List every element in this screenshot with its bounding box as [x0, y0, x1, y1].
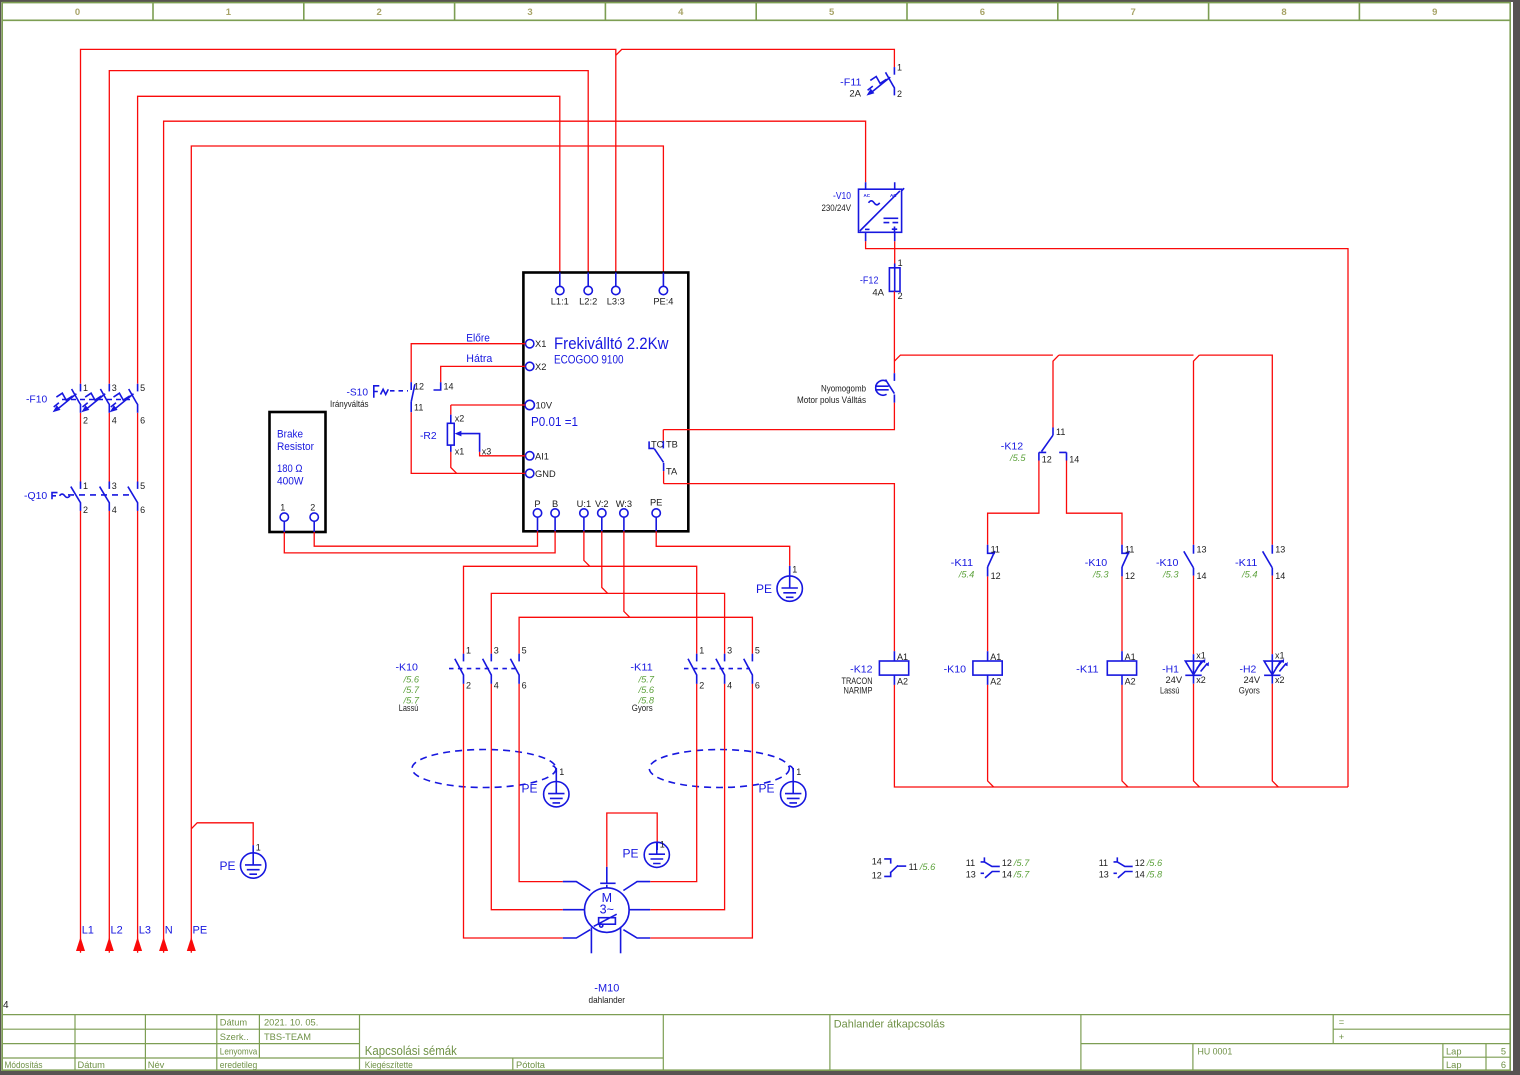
svg-text:2021. 10. 05.: 2021. 10. 05.	[264, 1018, 318, 1028]
svg-text:1: 1	[466, 645, 471, 655]
K10 pin numbers	[466, 645, 527, 690]
svg-text:-V10: -V10	[833, 190, 851, 202]
svg-text:-F11: -F11	[840, 77, 861, 89]
svg-text:11: 11	[1125, 544, 1134, 554]
svg-text:1: 1	[792, 565, 797, 575]
svg-text:L3: L3	[139, 925, 151, 937]
inverter pin U:1	[577, 499, 591, 531]
svg-text:/5.7: /5.7	[1013, 869, 1030, 879]
svg-text:PE: PE	[193, 925, 208, 937]
svg-text:6: 6	[980, 7, 985, 18]
svg-text:-K11: -K11	[630, 662, 653, 674]
svg-text:PE: PE	[623, 847, 639, 861]
svg-text:Lassú: Lassú	[1160, 686, 1180, 696]
svg-text:Kiegészítette: Kiegészítette	[365, 1060, 413, 1070]
svg-text:/5.4: /5.4	[958, 570, 975, 580]
svg-text:14: 14	[1069, 454, 1079, 464]
svg-text:12: 12	[414, 382, 424, 392]
svg-text:3: 3	[112, 481, 117, 491]
K11 mechanical link	[684, 668, 750, 670]
selector switch S10	[374, 382, 441, 412]
NC contact K10 pin numbers	[1125, 544, 1135, 581]
F10 mechanical link	[62, 399, 131, 401]
inverter pin W:3	[616, 499, 632, 531]
N source arrow	[159, 937, 168, 951]
svg-text:/5.6: /5.6	[403, 675, 420, 685]
svg-text:14: 14	[1135, 869, 1145, 879]
svg-text:x1: x1	[1196, 651, 1206, 661]
circuit breaker F10 pole 2	[81, 384, 109, 413]
svg-text:eredetileg: eredetileg	[220, 1060, 257, 1070]
svg-text:TBS-TEAM: TBS-TEAM	[264, 1032, 311, 1042]
svg-text:2: 2	[897, 89, 902, 99]
wire inverter V:2 to contactor row	[491, 531, 724, 653]
wire inverter PE to earth	[656, 531, 790, 566]
svg-text:11: 11	[1099, 858, 1108, 868]
svg-text:PE: PE	[759, 782, 775, 796]
aux contact mirror K11	[1099, 857, 1163, 879]
svg-text:A2: A2	[897, 677, 908, 687]
svg-text:/5.7: /5.7	[638, 675, 655, 685]
svg-text:12: 12	[872, 871, 882, 881]
svg-text:7: 7	[1131, 7, 1136, 18]
svg-text:1: 1	[226, 7, 232, 18]
svg-text:14: 14	[444, 382, 454, 392]
svg-text:P0.01 =1: P0.01 =1	[531, 415, 578, 429]
svg-text:/5.8: /5.8	[1146, 869, 1163, 879]
circuit breaker F10 pole 1	[53, 384, 81, 413]
power supply V10	[859, 182, 905, 241]
switch disconnector Q10 pole 2	[100, 482, 110, 511]
svg-text:A2: A2	[990, 677, 1001, 687]
svg-text:-K12: -K12	[1001, 440, 1024, 452]
svg-text:14: 14	[1197, 571, 1207, 581]
svg-text:2: 2	[699, 681, 704, 691]
inverter pin X1	[523, 339, 546, 349]
inverter pin P	[533, 499, 541, 531]
svg-text:14: 14	[1002, 869, 1012, 879]
svg-text:A1: A1	[897, 652, 908, 662]
ground PE (bottom left)	[220, 843, 266, 879]
ruler column numbers	[75, 7, 1438, 18]
S10 pin numbers	[414, 382, 454, 413]
coil K10	[973, 651, 1002, 686]
wire NC K11 to coil K10	[987, 576, 989, 651]
Q10 actuator	[52, 493, 70, 500]
svg-text:5: 5	[829, 7, 835, 18]
NC contact K11 pin numbers	[991, 544, 1001, 581]
wire K11 pole1 to motor upper right	[650, 684, 697, 882]
coil K11	[1107, 651, 1136, 686]
svg-text:Lassú: Lassú	[399, 703, 419, 713]
lamp H2	[1264, 651, 1288, 686]
wire K11 pole2 to motor mid right	[650, 684, 724, 910]
title block grid	[2, 1015, 1510, 1071]
wire K12 pin12 to NC contact K11	[988, 461, 1039, 545]
svg-text:TC: TC	[651, 440, 664, 450]
K10 cross references	[403, 675, 420, 706]
svg-text:HU 0001: HU 0001	[1198, 1046, 1233, 1056]
potentiometer R2	[447, 405, 525, 473]
contactor K10 pole 1	[455, 654, 464, 684]
ground PE (right contactor frame)	[759, 766, 806, 807]
svg-text:4: 4	[112, 416, 117, 426]
svg-text:13: 13	[1275, 544, 1285, 554]
svg-text:0: 0	[75, 7, 80, 18]
Q10 pin numbers	[83, 481, 145, 515]
svg-text:1: 1	[699, 645, 704, 655]
svg-text:2: 2	[310, 503, 315, 513]
wire PE riser to inverter PE:4	[191, 146, 663, 953]
svg-text:X1: X1	[535, 339, 546, 349]
svg-text:X2: X2	[535, 362, 546, 372]
svg-text:GND: GND	[535, 469, 556, 479]
svg-text:11: 11	[991, 544, 1000, 554]
inverter pin AI1	[523, 451, 549, 461]
wire inverter U:1 to contactor row	[464, 531, 697, 653]
wire K10 pole2 to motor mid left	[491, 684, 563, 910]
svg-text:L3:3: L3:3	[607, 297, 625, 307]
fuse F12	[889, 264, 900, 292]
inverter pin L3:3	[607, 273, 625, 307]
svg-text:Irányváltás: Irányváltás	[330, 399, 369, 409]
svg-text:L2:2: L2:2	[579, 297, 597, 307]
svg-text:5: 5	[140, 481, 145, 491]
svg-text:5: 5	[140, 383, 145, 393]
mechanical linkage ellipse right	[649, 750, 789, 788]
wire S10 pin11 to GND	[411, 412, 525, 473]
svg-text:V:2: V:2	[595, 499, 609, 509]
NC contact K11/5.4	[988, 545, 995, 577]
svg-text:Dahlander átkapcsolás: Dahlander átkapcsolás	[834, 1019, 945, 1031]
svg-text:x3: x3	[482, 446, 492, 456]
svg-text:11: 11	[966, 858, 975, 868]
svg-text:4: 4	[678, 7, 684, 18]
svg-text:3: 3	[494, 645, 499, 655]
NO contact K10 pin numbers	[1197, 544, 1207, 581]
svg-text:-K10: -K10	[944, 663, 967, 675]
svg-text:400W: 400W	[277, 476, 304, 488]
svg-text:24V: 24V	[1166, 675, 1183, 685]
svg-text:PE:4: PE:4	[653, 297, 673, 307]
svg-text:12: 12	[1002, 858, 1012, 868]
svg-text:/5.6: /5.6	[638, 685, 655, 695]
contactor K11 pole 1	[688, 654, 697, 684]
K11 pin numbers	[699, 645, 760, 690]
svg-text:3: 3	[727, 645, 732, 655]
lamp H1	[1185, 651, 1209, 686]
svg-text:x1: x1	[1275, 651, 1285, 661]
changeover contact K12	[1039, 428, 1067, 461]
NO contact K10/5.3	[1184, 545, 1194, 576]
inverter pin PE:4	[653, 273, 673, 307]
svg-text:-H1: -H1	[1162, 663, 1179, 675]
wire F12 to pushbutton with branch to contactor ladder	[894, 291, 1272, 544]
wire K10 pole1 to motor lower left	[464, 684, 563, 938]
svg-text:11: 11	[909, 862, 918, 872]
NO contact K11 pin numbers	[1275, 544, 1285, 581]
svg-text:6: 6	[140, 416, 145, 426]
svg-text:5: 5	[1501, 1046, 1506, 1056]
svg-text:AI1: AI1	[535, 451, 549, 461]
svg-text:/5.3: /5.3	[1092, 570, 1109, 580]
svg-text:x1: x1	[455, 446, 465, 456]
svg-text:-K11: -K11	[1076, 663, 1099, 675]
svg-text:2: 2	[377, 7, 382, 18]
svg-text:A2: A2	[1125, 677, 1136, 687]
svg-text:2A: 2A	[849, 89, 861, 100]
brake resistor pin 2	[310, 503, 318, 533]
aux contact mirror K12	[872, 857, 936, 881]
wire NO K11 to lamp H2	[1271, 576, 1273, 655]
svg-text:-F10: -F10	[26, 394, 47, 406]
svg-text:x2: x2	[455, 414, 465, 424]
svg-text:Nyomogomb: Nyomogomb	[821, 383, 866, 393]
svg-text:13: 13	[966, 869, 976, 879]
svg-text:6: 6	[140, 505, 145, 515]
svg-text:Frekiválltó 2.2Kw: Frekiválltó 2.2Kw	[554, 334, 669, 353]
svg-text:6: 6	[755, 681, 760, 691]
svg-text:12: 12	[1042, 454, 1052, 464]
svg-text:Brake: Brake	[277, 429, 303, 441]
wire L3 riser to inverter L1:1	[138, 96, 560, 953]
svg-text:AC: AC	[864, 193, 871, 198]
svg-text:1: 1	[83, 383, 88, 393]
svg-text:PE: PE	[220, 859, 236, 873]
svg-text:Dátum: Dátum	[220, 1018, 248, 1028]
inverter pin L2:2	[579, 273, 597, 307]
relay contact TC TB TA inside inverter	[649, 430, 678, 484]
svg-text:/5.7: /5.7	[1013, 858, 1030, 868]
svg-text:2: 2	[898, 291, 903, 301]
svg-text:6: 6	[522, 681, 527, 691]
svg-text:1: 1	[897, 63, 902, 73]
svg-text:-K10: -K10	[1085, 557, 1108, 569]
svg-text:3: 3	[527, 7, 532, 18]
svg-text:230/24V: 230/24V	[822, 203, 852, 214]
svg-text:L1:1: L1:1	[551, 297, 569, 307]
svg-text:1: 1	[280, 503, 285, 513]
svg-text:180 Ω: 180 Ω	[277, 463, 303, 475]
top column ruler row	[2, 3, 1510, 21]
svg-text:/5.6: /5.6	[1146, 858, 1163, 868]
svg-text:Gyors: Gyors	[632, 703, 653, 713]
svg-text:NARIMP: NARIMP	[844, 686, 873, 696]
svg-text:PE: PE	[756, 582, 772, 596]
wire V10 minus output to right rail	[866, 241, 1348, 787]
svg-text:-K11: -K11	[1235, 557, 1258, 569]
title block texts	[5, 1017, 1507, 1070]
wire X1 Elore	[411, 344, 525, 383]
svg-text:12: 12	[1125, 571, 1135, 581]
svg-text:2: 2	[83, 505, 88, 515]
wire NC K10 to coil K11	[1121, 576, 1123, 651]
svg-text:Motor polus Válltás: Motor polus Válltás	[797, 395, 866, 405]
svg-text:8: 8	[1281, 7, 1286, 18]
svg-text:4: 4	[3, 1000, 9, 1011]
inverter pin V:2	[595, 499, 609, 531]
svg-text:U:1: U:1	[577, 499, 591, 509]
svg-text:/5.3: /5.3	[1162, 570, 1179, 580]
svg-text:4A: 4A	[872, 288, 884, 299]
NO contact K11/5.4	[1263, 545, 1273, 576]
contactor K11 pole 3	[744, 654, 753, 684]
svg-text:TA: TA	[666, 467, 678, 477]
wire K11 pole3 to motor lower right	[650, 684, 752, 938]
svg-text:13: 13	[1197, 544, 1207, 554]
svg-text:x2: x2	[1275, 675, 1285, 685]
NC contact K10/5.3	[1122, 545, 1129, 577]
inverter pin GND	[523, 469, 556, 479]
svg-text:11: 11	[1056, 427, 1065, 437]
L2 source arrow	[105, 937, 114, 951]
coil K12	[879, 651, 908, 686]
svg-text:9: 9	[1432, 7, 1437, 18]
wire K12 pin14 to NC contact K10	[1067, 461, 1123, 545]
svg-text:1: 1	[559, 767, 564, 777]
K12 contact pin numbers	[1042, 427, 1080, 465]
svg-text:1: 1	[256, 843, 261, 853]
svg-text:/5.4: /5.4	[1241, 570, 1258, 580]
wire L2 riser to inverter L2:2	[109, 71, 588, 953]
svg-text:11: 11	[414, 403, 423, 413]
svg-text:10V: 10V	[536, 401, 553, 411]
svg-text:N: N	[165, 925, 173, 937]
svg-text:Lenyomva: Lenyomva	[220, 1046, 258, 1056]
svg-text:1: 1	[898, 258, 903, 268]
svg-text:Lap: Lap	[1446, 1060, 1462, 1070]
svg-text:Hátra: Hátra	[466, 353, 493, 365]
svg-text:Módosítás: Módosítás	[5, 1060, 43, 1070]
svg-text:14: 14	[1275, 571, 1285, 581]
svg-text:Pótolta: Pótolta	[516, 1060, 546, 1070]
svg-text:Lap: Lap	[1446, 1046, 1462, 1056]
svg-text:14: 14	[872, 857, 882, 867]
wire L1 riser and top run to L3:3 branch and F11	[81, 49, 895, 952]
L3 source arrow	[133, 937, 142, 951]
switch disconnector Q10 pole 1	[71, 482, 81, 511]
svg-text:/5.6: /5.6	[919, 862, 936, 872]
svg-text:-K11: -K11	[951, 557, 974, 569]
svg-text:L2: L2	[111, 925, 123, 937]
svg-text:1: 1	[660, 840, 665, 850]
inverter pin PE	[650, 498, 662, 532]
svg-text:-K10: -K10	[396, 662, 419, 674]
svg-text:3: 3	[112, 383, 117, 393]
wire K10 pole3 to motor upper left	[519, 684, 563, 882]
svg-text:-M10: -M10	[594, 983, 619, 995]
svg-text:/5.7: /5.7	[403, 685, 420, 695]
wire ladder bottom bus	[894, 684, 1348, 787]
brake resistor pin 1	[280, 503, 288, 533]
svg-text:-R2: -R2	[420, 430, 437, 442]
svg-text:4: 4	[112, 505, 117, 515]
svg-text:Gyors: Gyors	[1239, 686, 1260, 696]
wire X2 Hatra	[441, 366, 526, 382]
wire N riser to V10 left input	[164, 121, 866, 953]
svg-text:5: 5	[755, 645, 760, 655]
svg-text:W:3: W:3	[616, 499, 632, 509]
motor M10	[563, 867, 650, 953]
svg-text:dahlander: dahlander	[589, 995, 626, 1005]
svg-text:3~: 3~	[600, 903, 614, 917]
pushbutton Nyomogomb	[875, 373, 894, 402]
L1 source arrow	[76, 937, 85, 951]
svg-text:12: 12	[991, 571, 1001, 581]
svg-text:AC: AC	[890, 193, 897, 198]
Q10 mechanical link	[68, 494, 133, 496]
svg-text:A1: A1	[990, 652, 1001, 662]
ground PE (left contactor frame)	[522, 766, 570, 807]
K12 coil make label	[842, 676, 873, 696]
wire TA to K12 coil rail	[664, 484, 895, 652]
svg-text:=: =	[1339, 1017, 1344, 1027]
K11 cross references	[638, 675, 655, 706]
inverter pin B	[551, 499, 559, 531]
svg-text:B: B	[552, 499, 558, 509]
svg-text:5: 5	[522, 645, 527, 655]
wire inverter B to brake pin 1	[284, 531, 555, 553]
svg-text:-F12: -F12	[860, 275, 879, 287]
svg-text:24V: 24V	[1244, 675, 1261, 685]
contactor K11 pole 2	[716, 654, 725, 684]
svg-text:6: 6	[1501, 1060, 1506, 1070]
svg-text:-K10: -K10	[1156, 557, 1179, 569]
wire PE branch to earth symbol	[191, 823, 253, 845]
inverter pin X2	[523, 362, 546, 372]
svg-text:1: 1	[796, 767, 801, 777]
wire motor PE to earth	[607, 813, 657, 867]
svg-text:2: 2	[83, 416, 88, 426]
svg-text:-S10: -S10	[347, 386, 369, 398]
svg-text:PE: PE	[650, 498, 662, 508]
svg-text:Előre: Előre	[466, 333, 490, 345]
wire inverter P to brake pin 2	[314, 531, 537, 546]
svg-text:P: P	[534, 499, 540, 509]
svg-text:Resistor: Resistor	[277, 441, 314, 453]
svg-text:x2: x2	[1196, 675, 1206, 685]
svg-text:13: 13	[1099, 869, 1109, 879]
wire V10 plus output to F12	[894, 241, 896, 267]
wire NO K10 to lamp H1	[1193, 576, 1195, 655]
svg-text:Szerk..: Szerk..	[220, 1032, 249, 1042]
svg-text:1: 1	[83, 481, 88, 491]
inverter pin L1:1	[551, 273, 569, 307]
svg-text:-Q10: -Q10	[24, 490, 47, 502]
frequency inverter U10 box	[523, 273, 688, 532]
svg-text:Kapcsolási sémák: Kapcsolási sémák	[365, 1044, 458, 1058]
svg-text:A1: A1	[1125, 652, 1136, 662]
PE source arrow	[187, 937, 196, 951]
brake resistor box	[270, 412, 326, 532]
mechanical linkage ellipse left	[412, 750, 556, 788]
svg-text:TRACON: TRACON	[842, 676, 873, 686]
F12 pin numbers	[898, 258, 903, 301]
svg-text:PE: PE	[522, 782, 538, 796]
svg-text:12: 12	[1135, 858, 1145, 868]
F10 pin numbers	[83, 383, 145, 426]
svg-text:L1: L1	[82, 925, 94, 937]
contactor K10 pole 2	[483, 654, 492, 684]
inverter pin 10V	[523, 400, 552, 410]
svg-text:+: +	[1339, 1032, 1344, 1042]
svg-text:4: 4	[727, 681, 732, 691]
K10 mechanical link	[449, 668, 515, 670]
switch disconnector Q10 pole 3	[128, 482, 138, 511]
contactor K10 pole 3	[510, 654, 519, 684]
svg-text:/5.5: /5.5	[1009, 453, 1026, 463]
wire inverter W:3 to contactor row	[519, 531, 752, 653]
